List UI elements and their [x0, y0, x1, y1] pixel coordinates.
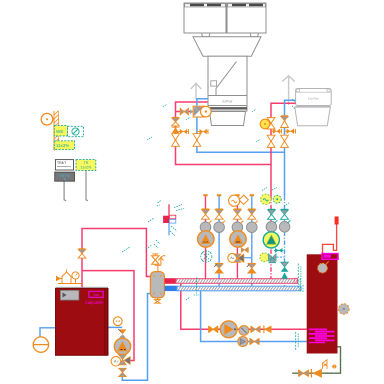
HP1 pump-row bowtie valve V1	[180, 108, 193, 115]
boiler check valve V28	[118, 329, 126, 338]
DHW gravity brake G11	[239, 326, 249, 336]
air flow arrow A2 (right)	[282, 76, 295, 105]
circuit 2 diamond G4	[239, 195, 248, 204]
CW water meter WM	[323, 360, 337, 369]
annotation below supply bar (teal)	[186, 278, 199, 301]
svg-text:Calputelle: Calputelle	[85, 300, 104, 305]
pipe: cold water green	[292, 347, 340, 373]
HP1 4-way valve V2	[193, 106, 204, 117]
heat pump outdoor unit HP1	[184, 3, 266, 126]
svg-text:WE: WE	[56, 129, 63, 134]
circuit 1 return stub	[217, 194, 221, 196]
svg-text:TR: TR	[84, 161, 89, 165]
annotation HP1 (teal ticks)	[147, 104, 190, 140]
circuit 1 supply stub	[203, 194, 207, 196]
HP2 pump P2 (yellow)	[260, 119, 270, 129]
pipe: HP1 return blue	[197, 99, 285, 153]
thermostat TH	[163, 204, 176, 235]
pipe: HP2 return blue	[285, 100, 296, 196]
annotation mid-left (teal)	[122, 218, 154, 252]
annotation above circuit3 sensors	[262, 188, 289, 207]
svg-text:TR4/7: TR4/7	[57, 161, 66, 165]
sensor stem S2	[86, 170, 88, 200]
HP1 drain valves V6	[172, 134, 201, 147]
HP1 return fill stub V7	[197, 129, 208, 134]
circuit 3 supply valve V19 (teal)	[268, 209, 276, 219]
circuit 2 mixing valve V18 with motor	[228, 253, 244, 262]
expansion vessel	[33, 337, 48, 352]
indoor unit HP2 (top right)	[295, 89, 331, 126]
tank flange top	[318, 263, 328, 273]
circuit 2 return shut-off valve V17	[248, 209, 256, 219]
svg-text:MB: MB	[236, 240, 241, 244]
circuit 3 bypass stub (dashed)	[276, 256, 284, 258]
label L5 (gray box)	[55, 172, 75, 182]
circuit 2 supply shut-off valve V16	[233, 209, 241, 219]
DHW loading line shut-off valve V24	[209, 326, 218, 333]
air flow arrow A1 (left)	[191, 83, 201, 99]
DHW loading pump P6	[220, 321, 237, 338]
HP1 pump P1	[201, 106, 212, 117]
manifold supply bar	[165, 278, 176, 284]
circuit 1 pump P3	[198, 231, 214, 247]
circuit 2 pump P4	[230, 231, 246, 247]
pipe: HP2 supply dash-dot	[270, 196, 272, 280]
label L4 (yellow)	[76, 160, 96, 171]
boiler B1	[56, 287, 109, 355]
circuit 3 thermometer G10	[279, 220, 290, 232]
circuit 3 return valve V20 (teal)	[281, 209, 289, 219]
svg-text:Gas: Gas	[93, 293, 100, 297]
circuit 1 thermometer G1	[200, 221, 211, 233]
DHW return pump P7	[238, 337, 248, 347]
HP2 supply valve V8	[267, 118, 275, 129]
circuit 3 mixing valve V22	[260, 253, 276, 263]
HP2 drain valves V12	[267, 135, 288, 147]
DHW return valve V27	[250, 338, 259, 345]
circuit 2 bypass stub	[244, 257, 252, 259]
pipe: boiler return chain blue	[107, 326, 122, 328]
annotation near thermostat (teal)	[154, 200, 184, 248]
separator safety valve	[152, 254, 161, 271]
pipe: HP2 return dash-dot	[284, 196, 286, 287]
manifold return bar	[165, 286, 177, 291]
boiler safety group	[57, 270, 83, 284]
circuit 2 thermometer G5	[232, 221, 243, 233]
pipe: DHW return blue	[201, 291, 307, 342]
boiler 3-way valve V29	[119, 355, 131, 365]
tank top connection magenta	[322, 254, 338, 260]
pipe: boiler bypass to 3-way valve	[82, 271, 134, 361]
HP1 supply shut-off valve V3 (gray cap)	[172, 118, 180, 126]
pipe: boiler supply to separator	[82, 229, 151, 289]
circuit 2 thermometer G6	[247, 221, 258, 233]
outdoor sensor circle	[41, 113, 54, 125]
HP1 check valve V4	[172, 127, 179, 133]
svg-text:C-P: C-P	[203, 240, 208, 244]
circuit 2 return stub	[250, 194, 254, 196]
circuit 1 return valve V15	[214, 263, 223, 273]
wall section (hatched)	[54, 111, 59, 151]
pipe: expansion vessel blue	[40, 328, 56, 337]
boiler thermometer G12	[113, 317, 122, 326]
CW check valve V32	[311, 369, 322, 378]
CW line valve V31	[299, 370, 309, 377]
tank coils	[309, 329, 335, 342]
pipe: HP1 supply pink L	[176, 102, 272, 165]
circuit 1 return shut-off valve V14	[215, 209, 223, 219]
HP1 fill valve stub V5	[176, 129, 189, 134]
circuit 2 supply stub	[235, 194, 239, 196]
circuit 2 balancing bowtie V34	[241, 247, 248, 252]
circuit 1 supply shut-off valve V13	[202, 209, 210, 219]
pipe: HP2 supply pink	[271, 103, 296, 196]
circuit 3 pump P5 (yellow/teal)	[263, 232, 279, 248]
circuit 3 balancing valve V21	[274, 248, 283, 253]
circuit 3 solar sensor G7 (dashed yellow)	[261, 194, 271, 204]
label L2 (yellow)	[54, 141, 74, 150]
circuit 1 cooling symbol (dashed)	[201, 251, 212, 263]
separator air vent	[158, 256, 165, 266]
sensor stem S1	[64, 181, 66, 201]
DHW check valve V26	[264, 326, 272, 334]
pipe: tank safety vent red	[323, 224, 337, 254]
pipe: DHW loading pink	[181, 284, 307, 329]
circuit 2 return valve V35	[247, 263, 256, 273]
svg-text:·8: ·8	[63, 178, 66, 182]
hydraulic separator	[150, 272, 164, 298]
circuit 2 sensor circle G3	[229, 195, 240, 206]
boiler shut-off valve V30	[119, 368, 127, 376]
DHW valve V25	[251, 326, 260, 333]
label icon box	[68, 126, 84, 136]
annotation left of tank (teal vertical)	[298, 264, 301, 290]
circuit 1 thermometer G2	[214, 221, 225, 233]
svg-text:11x2%: 11x2%	[81, 165, 93, 169]
boiler supply shut-off valve V33	[78, 249, 86, 258]
separator drain	[155, 298, 161, 303]
circuit 3 thermometer G9	[266, 220, 277, 232]
annotation HP2 connection (teal)	[252, 99, 296, 142]
circuit 3 teal valve V23	[281, 262, 289, 279]
pipe: HP1 pump-row stub	[176, 111, 195, 113]
annotation circulation (teal vertical)	[296, 332, 299, 350]
HP2 fill stub V11	[285, 129, 296, 134]
boiler pump P8	[114, 338, 130, 354]
HP2 fill stub V10	[271, 129, 281, 134]
annotation at manifold right end	[295, 278, 303, 293]
svg-text:ExpPlair: ExpPlair	[308, 96, 319, 100]
svg-text:ExPlair: ExPlair	[222, 99, 233, 103]
storage tank T1	[307, 254, 338, 353]
svg-text:11x3%: 11x3%	[56, 143, 69, 148]
label L1 (yellow)	[54, 126, 67, 136]
boiler mixer motor M1	[111, 357, 121, 367]
circuit 3 sensor G8	[273, 195, 281, 203]
tank flange side	[339, 304, 350, 315]
label L3 (white controller)	[55, 160, 73, 170]
HP2 return shut-off valve V9 (gray cap)	[281, 116, 289, 128]
